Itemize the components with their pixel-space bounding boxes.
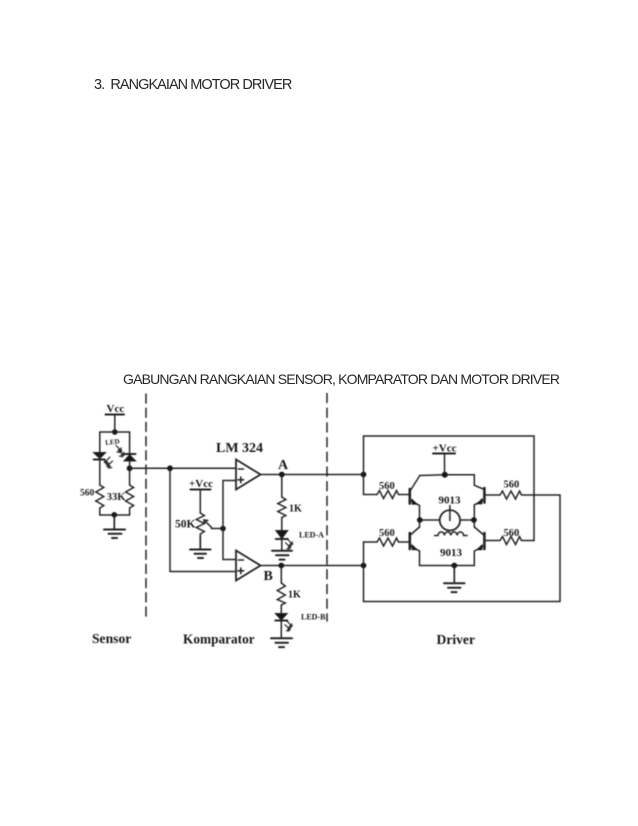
ground (pot) — [190, 536, 211, 558]
divider dashed line (komparator/driver) — [326, 394, 328, 622]
op-amp U1B — [236, 551, 261, 581]
node: driver input B junction — [361, 563, 367, 569]
node: sensor bottom junction — [112, 512, 118, 518]
resistor 560 (lower-left base) — [377, 538, 410, 546]
svg-text:Komparator: Komparator — [183, 632, 255, 647]
svg-text:560: 560 — [379, 481, 395, 492]
svg-text:9013: 9013 — [439, 495, 462, 507]
svg-text:9013: 9013 — [440, 547, 463, 559]
node: reference junction — [220, 526, 226, 532]
svg-text:LM 324: LM 324 — [216, 441, 263, 456]
svg-text:LED-B: LED-B — [301, 613, 326, 622]
transistor Q4 9013 (lower-right) — [474, 527, 484, 566]
resistor 33K (photodiode load) — [126, 485, 134, 515]
svg-text:1K: 1K — [288, 590, 301, 601]
ground (LED-B) — [271, 638, 292, 647]
wire: 1K to LED-A — [281, 518, 283, 531]
ground (driver) — [444, 566, 465, 593]
svg-text:560: 560 — [504, 480, 520, 491]
motor winding coil — [435, 532, 468, 536]
transistor Q1 9013 (upper-left) — [410, 476, 420, 521]
transistor Q2 9013 (upper-right) — [474, 475, 484, 520]
wire: sensor bottom — [100, 514, 130, 516]
wire: op-amp A output — [261, 474, 364, 476]
motor M shaft — [449, 506, 451, 521]
wire: motor left rail — [420, 519, 440, 521]
wire: B junction down and bottom return — [364, 495, 561, 602]
wire: reference to op-amp A + and op-amp B - — [223, 481, 236, 560]
node: Vcc junction — [112, 429, 118, 435]
svg-text:B: B — [264, 569, 273, 584]
wire: node A down — [281, 475, 283, 498]
node: sensor output — [127, 465, 133, 471]
top rail of H-bridge — [420, 474, 475, 477]
wire: motor right rail — [460, 519, 474, 521]
svg-text:Driver: Driver — [437, 632, 476, 647]
node: comparator input branch — [167, 465, 173, 471]
wire: 1K to LED-B — [280, 605, 282, 614]
wire: left mid vertical — [419, 520, 421, 527]
wire: right mid vertical — [473, 520, 475, 527]
+Vcc supply (driver) — [433, 443, 457, 475]
ground (LED-A) — [272, 551, 292, 560]
resistor 1K (LED-A) — [278, 497, 286, 518]
heading: 3. RANGKAIAN MOTOR DRIVER — [94, 77, 291, 93]
resistor 560 (upper-left base) — [377, 491, 410, 499]
Vcc supply symbol (sensor) — [106, 403, 125, 432]
resistor 1K (LED-B) — [277, 583, 285, 605]
wire: wiper to reference line — [212, 528, 224, 529]
node: motor left — [417, 517, 423, 523]
wire: A junction up and top rail to right — [364, 436, 535, 541]
wire: B junction up to lower-left base resistor — [364, 542, 378, 566]
subheading — [123, 371, 559, 387]
wire: right branch to resistor — [129, 468, 131, 485]
resistor 560 (sensor LED) — [96, 485, 104, 515]
LED D1 (emitting diode, left branch) — [94, 453, 106, 460]
node: +Vcc rail — [442, 472, 448, 478]
svg-text:560: 560 — [379, 528, 395, 539]
node: driver input A junction — [361, 472, 367, 478]
node A — [279, 472, 285, 478]
photodiode D2 incoming light arrows — [116, 446, 124, 457]
svg-text:LED-A: LED-A — [299, 531, 324, 540]
wire: sensor loop top — [100, 432, 130, 454]
LED D1 emission arrows — [105, 457, 113, 468]
svg-text:1K: 1K — [289, 504, 302, 515]
wire: left branch to resistor — [99, 460, 101, 486]
wire: branch down to op-amp B + input — [170, 468, 236, 571]
resistor 560 (lower-right base) — [484, 537, 534, 545]
motor M body — [440, 510, 460, 530]
svg-text:+Vcc: +Vcc — [189, 478, 213, 490]
svg-text:50K: 50K — [175, 519, 196, 531]
wire: sensor output to comparator — [130, 467, 236, 469]
svg-text:33K: 33K — [107, 492, 127, 503]
divider dashed line (sensor/komparator) — [145, 394, 147, 616]
node B — [278, 563, 284, 569]
node: emitter rail ground junction — [451, 563, 457, 569]
transistor Q3 9013 (lower-left) — [410, 527, 475, 566]
LED-A emission arrows — [286, 539, 293, 549]
LED-B emission arrows — [285, 621, 292, 631]
+Vcc supply (comparator) — [189, 478, 213, 513]
svg-text:560: 560 — [504, 528, 520, 539]
svg-text:A: A — [278, 458, 289, 473]
LED-B diode — [275, 614, 287, 639]
svg-text:Vcc: Vcc — [107, 403, 125, 415]
op-amp U1A — [236, 460, 261, 490]
resistor 560 (upper-right base) — [484, 491, 560, 499]
ground (sensor) — [104, 515, 125, 538]
svg-text:560: 560 — [80, 489, 95, 499]
wire: op-amp B output — [261, 565, 364, 567]
wire: node B down — [280, 566, 282, 584]
LED-A diode — [276, 531, 288, 551]
node: motor right — [471, 517, 477, 523]
svg-text:Sensor: Sensor — [92, 631, 131, 646]
wire: A junction down to base resistor — [364, 475, 378, 495]
svg-text:LED: LED — [105, 437, 120, 446]
photodiode D2 (right branch) — [124, 454, 136, 468]
potentiometer 50K — [196, 513, 211, 536]
